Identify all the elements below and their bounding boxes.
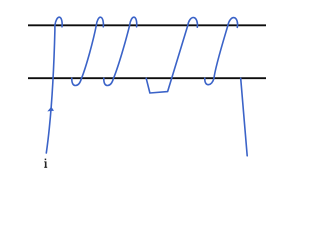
turn 4: trapezoid dip, diagonal, top loop: [146, 18, 197, 93]
core top line: [28, 24, 266, 26]
label i (drawn as shapes to avoid subpixel fringing): [44, 159, 47, 168]
wire lead-in with turn 1 loop: [46, 17, 62, 153]
turn 2: dip A, diagonal, top loop: [72, 17, 104, 85]
core bottom line: [28, 77, 266, 79]
current arrowhead: [47, 107, 54, 112]
wire lead-out: [241, 78, 248, 156]
turn 3: dip B, diagonal, top loop: [104, 17, 137, 85]
turn 5: dip C, diagonal, top loop: [205, 18, 238, 85]
